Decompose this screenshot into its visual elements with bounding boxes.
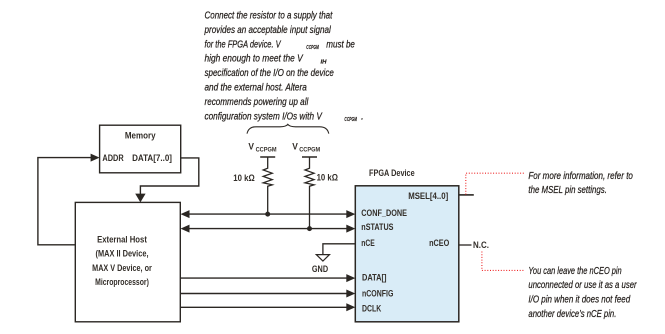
svg-text:MAX V Device, or: MAX V Device, or — [92, 263, 152, 274]
resistor R1 10k left — [263, 157, 272, 214]
svg-text:MSEL[4..0]: MSEL[4..0] — [408, 191, 448, 202]
wire nCONFIG — [181, 293, 348, 295]
svg-text:and the external host. Altera: and the external host. Altera — [205, 83, 308, 94]
svg-text:provides an acceptable input s: provides an acceptable input signal — [204, 25, 332, 36]
supply label VCCPGM left — [248, 141, 276, 153]
FPGA device block — [355, 186, 459, 322]
arrowhead nCONFIG — [346, 290, 355, 298]
arrowhead nSTATUS left — [181, 225, 190, 233]
svg-text:10 kΩ: 10 kΩ — [233, 173, 255, 184]
wire nSTATUS — [188, 228, 348, 230]
svg-text:unconnected or use it as a use: unconnected or use it as a user — [528, 280, 637, 291]
wire MSEL stub — [459, 194, 474, 196]
svg-text:high enough to meet the V: high enough to meet the V — [205, 54, 304, 65]
svg-text:Memory: Memory — [125, 131, 156, 142]
callout dotted nCEO — [482, 252, 524, 271]
arrowhead into host top — [135, 194, 145, 203]
wire DATA[] — [181, 277, 348, 279]
supply terminal bar right — [302, 156, 317, 158]
svg-text:N.C.: N.C. — [473, 240, 489, 251]
arrowhead DCLK — [346, 303, 355, 311]
arrowhead into ADDR — [91, 154, 100, 162]
resistor R2 10k right — [305, 157, 314, 229]
svg-text:Connect the resistor to a supp: Connect the resistor to a supply that — [205, 11, 334, 22]
brace — [247, 124, 329, 133]
memory block — [100, 125, 181, 173]
svg-text:V: V — [248, 141, 254, 152]
callout text nCEO — [528, 266, 637, 320]
arrowhead CONF_DONE left — [181, 210, 190, 218]
svg-text:DATA[]: DATA[] — [362, 272, 387, 283]
svg-text:CCPGM: CCPGM — [256, 146, 277, 153]
callout dotted MSEL — [466, 173, 524, 194]
supply terminal bar left — [260, 156, 275, 158]
wire CONF_DONE — [188, 213, 348, 215]
wire DCLK — [181, 306, 348, 308]
svg-text:nCEO: nCEO — [429, 238, 449, 249]
junction dot on CONF_DONE — [265, 212, 270, 217]
svg-text:must be: must be — [326, 39, 355, 50]
arrowhead CONF_DONE right — [346, 210, 355, 218]
svg-text:configuration system I/Os with: configuration system I/Os with V — [205, 111, 323, 122]
svg-text:I/O pin when it does not feed: I/O pin when it does not feed — [528, 294, 630, 305]
arrowhead DATA[] — [346, 274, 355, 282]
svg-text:10 kΩ: 10 kΩ — [317, 173, 339, 184]
svg-text:ADDR: ADDR — [102, 153, 123, 164]
svg-text:V: V — [292, 141, 298, 152]
svg-text:For more information, refer to: For more information, refer to — [528, 171, 633, 182]
external host block — [75, 202, 180, 321]
svg-text:.: . — [361, 111, 364, 122]
note paragraph top — [204, 11, 364, 124]
supply label VCCPGM right — [292, 141, 320, 153]
external host text — [92, 234, 152, 288]
svg-text:You can leave the nCEO pin: You can leave the nCEO pin — [528, 266, 622, 277]
wire nCEO stub — [459, 244, 472, 246]
svg-text:CCPGM: CCPGM — [344, 117, 357, 123]
svg-text:GND: GND — [312, 264, 328, 275]
svg-text:another device’s nCE pin.: another device’s nCE pin. — [528, 309, 616, 320]
svg-text:CONF_DONE: CONF_DONE — [361, 208, 407, 219]
wire ADDR loop — [38, 158, 92, 245]
svg-text:External Host: External Host — [97, 234, 147, 245]
svg-text:DATA[7..0]: DATA[7..0] — [132, 153, 172, 164]
svg-text:nSTATUS: nSTATUS — [361, 222, 393, 233]
junction dot on nSTATUS — [307, 226, 312, 231]
svg-text:recommends powering up all: recommends powering up all — [205, 97, 309, 108]
svg-text:the MSEL pin settings.: the MSEL pin settings. — [528, 185, 607, 196]
wire DATA memory to host — [140, 158, 198, 195]
svg-text:specification of the I/O on th: specification of the I/O on the device — [205, 68, 335, 79]
svg-text:CCPGM: CCPGM — [306, 45, 319, 51]
svg-text:Microprocessor): Microprocessor) — [95, 277, 149, 288]
wire nCE to ground — [323, 244, 355, 255]
svg-text:nCONFIG: nCONFIG — [362, 288, 393, 299]
arrowhead nSTATUS right — [346, 225, 355, 233]
svg-text:FPGA Device: FPGA Device — [369, 168, 415, 179]
ground — [312, 255, 330, 275]
svg-text:for the FPGA device. V: for the FPGA device. V — [205, 39, 282, 50]
svg-text:(MAX II Device,: (MAX II Device, — [96, 249, 149, 260]
svg-text:DCLK: DCLK — [362, 303, 381, 314]
callout text MSEL — [528, 171, 633, 196]
svg-text:CCPGM: CCPGM — [299, 146, 320, 153]
svg-text:nCE: nCE — [361, 238, 375, 249]
